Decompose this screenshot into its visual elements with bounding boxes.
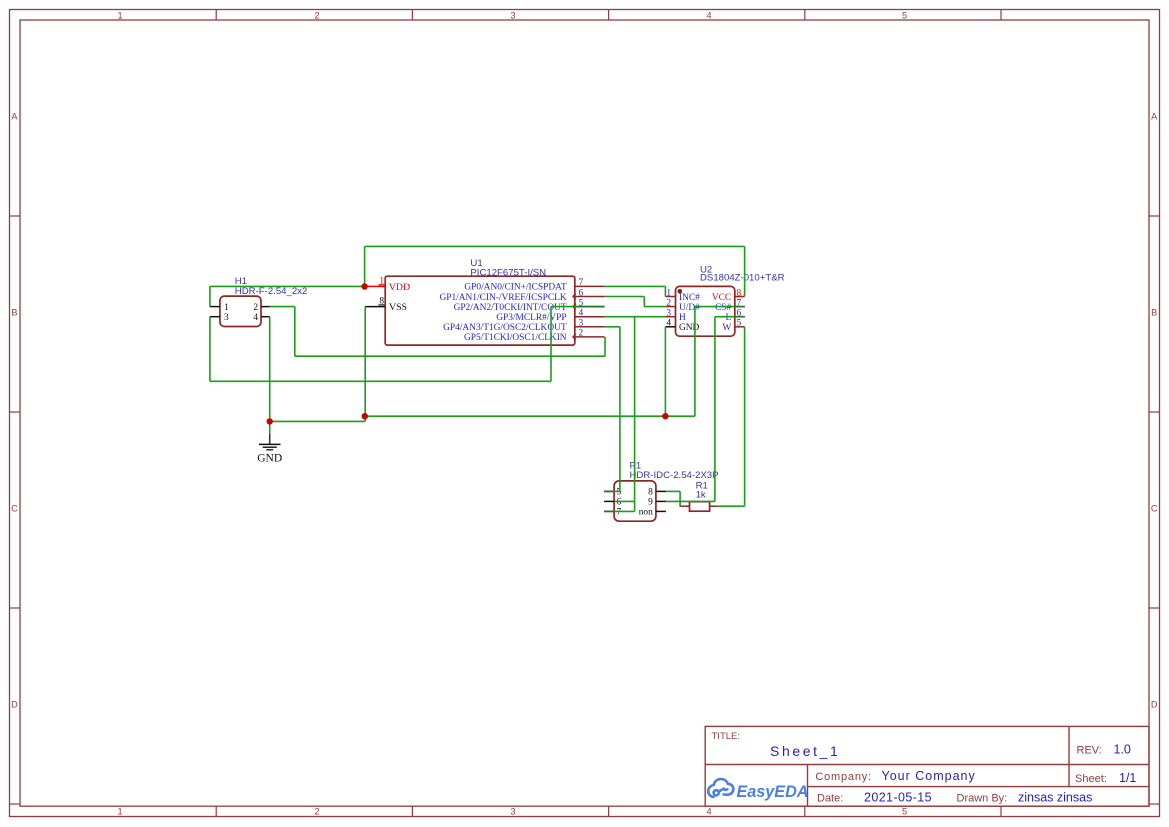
svg-text:2021-05-15: 2021-05-15 [864,791,932,805]
svg-text:HDR-F-2.54_2x2: HDR-F-2.54_2x2 [235,286,308,297]
svg-text:4: 4 [706,807,711,817]
svg-text:3: 3 [666,309,671,319]
svg-text:2: 2 [666,298,671,308]
svg-text:C: C [11,504,18,514]
svg-text:L: L [725,313,731,323]
svg-text:2: 2 [253,303,258,313]
svg-text:4: 4 [579,309,584,319]
svg-text:GP2/AN2/T0CKI/INT/COUT: GP2/AN2/T0CKI/INT/COUT [454,303,567,313]
svg-text:1: 1 [224,303,229,313]
svg-text:5: 5 [902,807,907,817]
svg-text:GP1/AN1/CIN-/VREF/ICSPCLK: GP1/AN1/CIN-/VREF/ICSPCLK [439,293,566,303]
svg-text:4: 4 [253,313,258,323]
svg-text:2: 2 [314,807,319,817]
svg-text:H: H [679,313,686,323]
svg-text:8: 8 [737,288,742,298]
svg-text:Company:: Company: [815,771,872,783]
svg-text:DS1804Z-010+T&R: DS1804Z-010+T&R [700,273,785,284]
svg-text:Your Company: Your Company [882,769,976,783]
svg-text:2: 2 [579,329,584,339]
svg-text:A: A [11,112,18,122]
svg-text:1k: 1k [696,490,706,501]
svg-text:TITLE:: TITLE: [712,731,741,742]
svg-text:1: 1 [117,10,122,20]
svg-text:A: A [1151,112,1158,122]
svg-text:C: C [1151,504,1158,514]
svg-text:4: 4 [706,10,711,20]
svg-text:VCC: VCC [712,293,731,303]
svg-text:REV:: REV: [1077,745,1102,757]
svg-text:B: B [1151,308,1157,318]
svg-text:8: 8 [648,488,653,498]
svg-text:U/D#: U/D# [679,303,700,313]
svg-text:GP4/AN3/T1G/OSC2/CLKOUT: GP4/AN3/T1G/OSC2/CLKOUT [443,323,567,333]
svg-text:3: 3 [510,807,515,817]
svg-text:GND: GND [257,453,282,465]
svg-text:1: 1 [666,288,671,298]
svg-text:W: W [722,323,731,333]
svg-text:3: 3 [510,10,515,20]
svg-text:6: 6 [617,498,622,508]
svg-text:D: D [1151,700,1158,710]
svg-text:VDD: VDD [389,282,410,293]
svg-text:1.0: 1.0 [1114,743,1131,757]
svg-text:EasyEDA: EasyEDA [737,783,809,801]
svg-text:6: 6 [579,288,584,298]
svg-text:4: 4 [666,319,671,329]
svg-text:INC#: INC# [679,293,700,303]
svg-text:3: 3 [579,319,584,329]
svg-text:GP0/AN0/CIN+/ICSPDAT: GP0/AN0/CIN+/ICSPDAT [464,283,566,293]
svg-text:Date:: Date: [817,793,843,805]
svg-text:zinsas zinsas: zinsas zinsas [1018,791,1092,805]
svg-text:1/1: 1/1 [1119,771,1136,785]
svg-text:Sheet:: Sheet: [1075,773,1107,785]
svg-text:1: 1 [117,807,122,817]
svg-text:3: 3 [224,313,229,323]
svg-text:Drawn By:: Drawn By: [957,793,1008,805]
svg-text:GND: GND [679,323,700,333]
svg-text:7: 7 [617,508,622,518]
svg-text:5: 5 [902,10,907,20]
svg-text:2: 2 [314,10,319,20]
svg-text:D: D [11,700,18,710]
svg-text:7: 7 [579,278,584,288]
svg-text:Sheet_1: Sheet_1 [770,743,840,759]
svg-text:non: non [639,508,653,518]
svg-text:GP3/MCLR#/VPP: GP3/MCLR#/VPP [496,313,566,323]
svg-text:HDR-IDC-2.54-2X3P: HDR-IDC-2.54-2X3P [630,470,719,481]
svg-text:9: 9 [648,498,653,508]
svg-text:CS#: CS# [715,303,731,313]
svg-text:5: 5 [737,319,742,329]
svg-text:5: 5 [617,488,622,498]
svg-text:VSS: VSS [389,302,407,313]
svg-text:B: B [11,308,17,318]
